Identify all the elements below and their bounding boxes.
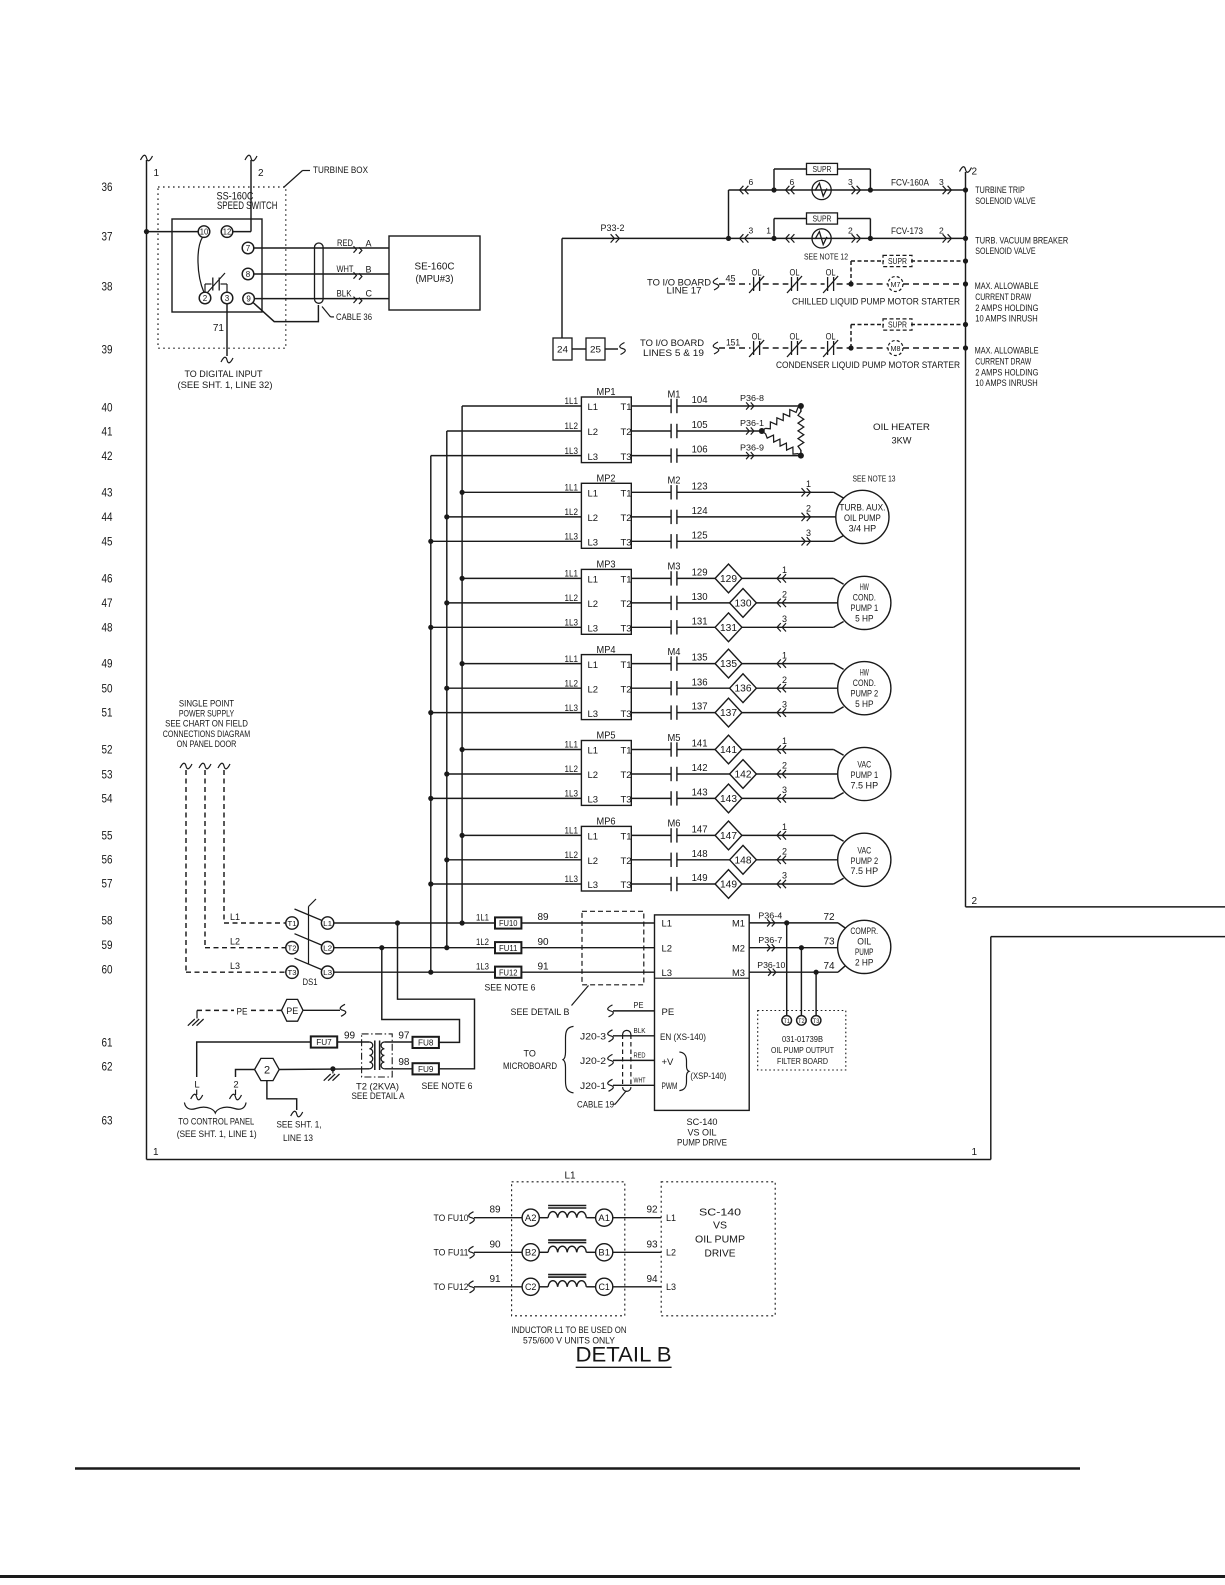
varistor row36 — [812, 180, 831, 199]
svg-text:3: 3 — [806, 528, 811, 538]
svg-text:VAC: VAC — [857, 760, 871, 770]
inductor winding B2-B1 — [539, 1251, 548, 1253]
svg-text:PUMP 1: PUMP 1 — [851, 603, 879, 613]
svg-text:T2: T2 — [621, 599, 632, 610]
suppressor loop row37 — [773, 219, 775, 239]
svg-text:P36-9: P36-9 — [740, 443, 765, 452]
svg-text:43: 43 — [102, 485, 113, 499]
svg-text:VAC: VAC — [857, 846, 871, 856]
svg-text:L2: L2 — [588, 599, 599, 610]
svg-text:MAX. ALLOWABLE: MAX. ALLOWABLE — [975, 346, 1039, 356]
ground symbol PE left — [196, 1010, 198, 1018]
flag diamond 143 — [715, 784, 742, 813]
flag diamond 141 — [715, 735, 742, 764]
svg-text:T2: T2 — [621, 856, 632, 867]
svg-text:129: 129 — [720, 574, 737, 585]
wire FU10 to drive — [521, 922, 654, 924]
svg-text:A2: A2 — [525, 1213, 537, 1223]
svg-text:L1: L1 — [230, 912, 240, 922]
svg-text:J20-2: J20-2 — [580, 1056, 606, 1066]
svg-text:91: 91 — [489, 1274, 501, 1285]
svg-text:1: 1 — [782, 822, 787, 832]
svg-text:CONDENSER LIQUID PUMP MOTOR ST: CONDENSER LIQUID PUMP MOTOR STARTER — [776, 360, 960, 370]
svg-text:OIL PUMP OUTPUT: OIL PUMP OUTPUT — [771, 1045, 834, 1055]
svg-text:1: 1 — [782, 650, 787, 660]
svg-text:L1: L1 — [564, 1171, 576, 1182]
svg-text:MP5: MP5 — [597, 730, 616, 742]
svg-text:TURB. VACUUM BREAKER: TURB. VACUUM BREAKER — [975, 235, 1068, 245]
svg-text:CONNECTIONS DIAGRAM: CONNECTIONS DIAGRAM — [163, 729, 250, 739]
drive box SC-140 — [655, 915, 750, 1111]
svg-text:7.5 HP: 7.5 HP — [851, 866, 879, 876]
svg-text:SUPR: SUPR — [888, 321, 907, 330]
svg-text:45: 45 — [725, 274, 735, 284]
wire 92 to drive L1 — [613, 1217, 661, 1219]
svg-text:48: 48 — [102, 620, 113, 634]
svg-text:TO CONTROL PANEL: TO CONTROL PANEL — [178, 1117, 254, 1127]
svg-text:COND.: COND. — [853, 678, 876, 688]
svg-text:WHT: WHT — [337, 264, 354, 274]
overload contact OL1 M7 — [753, 277, 755, 291]
svg-text:WHT: WHT — [634, 1075, 646, 1084]
svg-text:136: 136 — [692, 676, 708, 688]
break symbol top of line 2 — [245, 155, 257, 161]
svg-text:TO I/O BOARD: TO I/O BOARD — [640, 338, 705, 348]
svg-text:SPEED SWITCH: SPEED SWITCH — [217, 200, 278, 212]
coil M7 motor starter — [888, 277, 903, 292]
terminal L1 DS1 load side — [321, 917, 333, 929]
wires bus to MP3 — [462, 577, 581, 579]
svg-text:L3: L3 — [588, 795, 599, 806]
svg-text:L1: L1 — [662, 919, 673, 930]
svg-text:131: 131 — [692, 615, 708, 627]
svg-text:39: 39 — [102, 342, 113, 356]
svg-text:SUPR: SUPR — [813, 215, 832, 224]
svg-text:M4: M4 — [668, 646, 681, 658]
terminal 2 — [199, 292, 211, 304]
svg-text:89: 89 — [489, 1205, 501, 1216]
flag diamond 137 — [715, 698, 742, 727]
terminal L2 DS1 load side — [321, 942, 333, 954]
svg-text:A: A — [366, 239, 372, 249]
svg-text:PUMP 2: PUMP 2 — [851, 856, 879, 866]
svg-text:3: 3 — [782, 871, 787, 881]
svg-text:BLK: BLK — [634, 1026, 646, 1035]
svg-text:130: 130 — [735, 598, 752, 609]
transformer T2 core — [374, 1041, 376, 1071]
svg-text:46: 46 — [102, 571, 113, 585]
terminal T1 DS1 — [286, 917, 298, 929]
terminal T2 filter board — [797, 1016, 807, 1026]
svg-text:T3: T3 — [621, 880, 632, 891]
motor MP4 — [838, 662, 891, 715]
junction bus M8 — [963, 345, 968, 350]
arrow chevrons 6 row36 left — [740, 186, 744, 194]
motor compressor oil pump — [838, 920, 891, 973]
wire L feed to FU7 — [197, 1042, 311, 1077]
svg-text:SEE NOTE 6: SEE NOTE 6 — [485, 983, 536, 993]
svg-text:L2: L2 — [666, 1248, 676, 1258]
wire L1 to fuse FU10 — [334, 922, 495, 924]
svg-text:72: 72 — [823, 912, 835, 923]
resistor heater element right — [798, 412, 804, 451]
svg-text:L1: L1 — [588, 489, 599, 500]
svg-text:L: L — [194, 1080, 199, 1091]
flag diamond 149 — [715, 870, 742, 899]
wire M3 output 74 — [749, 971, 838, 973]
svg-text:+V: +V — [662, 1057, 675, 1068]
svg-text:CHILLED LIQUID PUMP MOTOR STAR: CHILLED LIQUID PUMP MOTOR STARTER — [792, 297, 960, 307]
wire 131 with flag — [677, 626, 715, 628]
terminal B2 inductor — [522, 1244, 539, 1261]
svg-text:PUMP DRIVE: PUMP DRIVE — [677, 1137, 727, 1148]
svg-text:1: 1 — [782, 565, 787, 575]
brace microboard — [563, 1026, 574, 1093]
wire 123 — [677, 491, 834, 493]
junction bus taps MP3 — [460, 576, 465, 581]
svg-text:56: 56 — [102, 852, 113, 866]
svg-text:T1: T1 — [621, 832, 632, 843]
bus 1L1 vertical feeder — [461, 406, 463, 923]
svg-text:FU9: FU9 — [418, 1064, 434, 1074]
svg-text:MAX. ALLOWABLE: MAX. ALLOWABLE — [975, 281, 1039, 291]
fuse FU12 — [495, 967, 521, 978]
svg-text:2: 2 — [972, 896, 978, 907]
wire FU7 to T2 primary — [337, 1041, 369, 1043]
wire line 37 from rail to terminal 10 — [147, 231, 199, 233]
svg-text:L2: L2 — [323, 944, 332, 953]
drive dotted box detail B — [661, 1182, 775, 1316]
svg-text:2: 2 — [264, 1064, 270, 1076]
svg-text:DS1: DS1 — [303, 977, 318, 987]
svg-text:OIL PUMP: OIL PUMP — [844, 513, 881, 523]
svg-text:125: 125 — [692, 529, 708, 541]
wire 71 from terminal 3 to digital input — [226, 304, 228, 356]
svg-text:OL: OL — [826, 268, 836, 278]
svg-text:M8: M8 — [891, 344, 901, 353]
wire PE hexagon to stub — [303, 1009, 340, 1011]
wire FU12 to drive — [521, 971, 654, 973]
svg-text:55: 55 — [102, 828, 113, 842]
svg-text:M5: M5 — [668, 732, 681, 744]
svg-text:J20-3: J20-3 — [580, 1031, 606, 1041]
overload contact OL2 M7 — [791, 277, 793, 291]
terminal C2 inductor — [522, 1278, 539, 1295]
wire line 2 vertical drop — [250, 160, 252, 232]
wire hexagon2 right to T2 primary bottom — [279, 1068, 369, 1071]
svg-text:97: 97 — [398, 1031, 410, 1042]
break symbol L stub — [191, 1094, 203, 1100]
dashed suppressor riser M8 — [850, 325, 852, 349]
motor turb aux oil pump — [836, 490, 889, 543]
svg-text:L3: L3 — [662, 968, 673, 979]
svg-text:MP3: MP3 — [597, 559, 616, 571]
wire 125 — [677, 540, 834, 542]
wires bus to MP2 — [462, 491, 581, 493]
junction bus row36 — [963, 187, 968, 192]
overload contact OL2 M8 — [791, 341, 793, 355]
svg-text:DETAIL B: DETAIL B — [576, 1343, 672, 1367]
svg-text:2: 2 — [939, 226, 944, 236]
junction supr loop left row36 — [771, 187, 776, 192]
node hexagon 2 — [255, 1058, 280, 1080]
svg-text:143: 143 — [692, 787, 708, 799]
svg-text:SEE DETAIL A: SEE DETAIL A — [352, 1091, 405, 1101]
svg-text:92: 92 — [646, 1205, 658, 1216]
svg-text:2 AMPS HOLDING: 2 AMPS HOLDING — [975, 367, 1038, 377]
suppressor SUPR dashed box M7 — [883, 255, 912, 266]
svg-text:L3: L3 — [588, 452, 599, 463]
motor starter block MP2 — [581, 483, 631, 548]
svg-text:52: 52 — [102, 742, 113, 756]
dashed suppressor riser M7 — [850, 261, 852, 284]
svg-text:49: 49 — [102, 656, 113, 670]
brace to control panel — [184, 1103, 246, 1114]
svg-text:T1: T1 — [783, 1018, 790, 1025]
svg-text:1: 1 — [782, 736, 787, 746]
svg-text:40: 40 — [102, 400, 113, 414]
svg-text:OL: OL — [790, 268, 800, 278]
wire riser to line 24 box — [561, 238, 563, 338]
svg-text:L1: L1 — [666, 1213, 676, 1223]
svg-text:135: 135 — [692, 652, 708, 664]
junction ground tap T2 — [330, 1066, 335, 1071]
wire 129 with flag — [677, 577, 715, 579]
flag diamond 142 — [730, 760, 757, 789]
svg-text:P33-2: P33-2 — [601, 223, 625, 233]
svg-text:PE: PE — [237, 1007, 248, 1017]
svg-text:25: 25 — [590, 345, 601, 356]
svg-text:T2: T2 — [621, 684, 632, 695]
wire hexagon2 bottom to SHT1 LINE13 stub — [267, 1081, 297, 1110]
svg-text:PWM: PWM — [662, 1081, 678, 1092]
svg-text:L3: L3 — [323, 968, 332, 977]
fuse FU10 — [495, 917, 521, 928]
svg-text:L2: L2 — [588, 427, 599, 438]
svg-text:T2 (2KVA): T2 (2KVA) — [356, 1081, 399, 1091]
svg-text:CURRENT DRAW: CURRENT DRAW — [975, 357, 1031, 367]
svg-text:98: 98 — [398, 1057, 410, 1068]
svg-text:VS: VS — [713, 1219, 727, 1231]
transformer T2 primary winding — [369, 1042, 372, 1069]
svg-text:T1: T1 — [288, 919, 297, 928]
terminal T2 DS1 — [286, 942, 298, 954]
svg-text:PUMP 1: PUMP 1 — [851, 770, 879, 780]
svg-text:M3: M3 — [668, 561, 681, 573]
svg-text:M6: M6 — [668, 818, 681, 830]
label CABLE 36 with leader — [322, 307, 331, 317]
filter board dotted box — [758, 1011, 846, 1071]
svg-text:L3: L3 — [588, 624, 599, 635]
bus 1L3 vertical feeder — [430, 456, 432, 973]
svg-text:T3: T3 — [621, 624, 632, 635]
svg-text:POWER SUPPLY: POWER SUPPLY — [179, 709, 234, 719]
svg-text:2: 2 — [782, 847, 787, 857]
inductor L1 dotted box — [512, 1182, 625, 1316]
svg-text:TURBINE BOX: TURBINE BOX — [313, 165, 368, 175]
switch blade DS1 L3 — [295, 958, 322, 969]
junction P33-2 riser — [726, 236, 731, 241]
svg-text:A1: A1 — [598, 1213, 610, 1223]
svg-text:91: 91 — [537, 961, 549, 972]
svg-text:TO: TO — [524, 1049, 536, 1059]
svg-text:L3: L3 — [588, 880, 599, 891]
break symbol wire 71 — [221, 357, 233, 363]
svg-text:2 AMPS HOLDING: 2 AMPS HOLDING — [975, 303, 1038, 313]
svg-text:2: 2 — [258, 168, 264, 179]
flag diamond 147 — [715, 821, 742, 850]
inductor winding C2-C1 — [539, 1286, 548, 1288]
svg-text:2: 2 — [233, 1080, 238, 1091]
svg-text:L2: L2 — [588, 770, 599, 781]
svg-text:130: 130 — [692, 591, 708, 603]
svg-text:141: 141 — [720, 745, 737, 756]
svg-text:SOLENOID VALVE: SOLENOID VALVE — [975, 196, 1035, 206]
break symbol top of bus 2 — [960, 167, 972, 173]
svg-text:2 HP: 2 HP — [855, 958, 873, 968]
wire 141 with flag — [677, 749, 715, 751]
svg-text:73: 73 — [823, 937, 835, 948]
svg-text:M2: M2 — [668, 475, 681, 487]
svg-text:SOLENOID VALVE: SOLENOID VALVE — [975, 246, 1035, 256]
svg-text:42: 42 — [102, 449, 113, 463]
speed switch contact symbol — [204, 284, 206, 292]
node PE hexagon — [282, 999, 304, 1021]
svg-text:CABLE 36: CABLE 36 — [336, 312, 372, 322]
junction taps on row 59 — [379, 945, 384, 950]
drive box internal divider — [655, 977, 750, 979]
break symbol line17 stub — [713, 278, 719, 290]
svg-text:L1: L1 — [588, 402, 599, 413]
wire BLK C from 9 to SE-160C — [254, 298, 389, 300]
svg-text:M7: M7 — [891, 280, 901, 289]
svg-text:MP6: MP6 — [597, 816, 616, 828]
frame top border lower-right — [991, 936, 1225, 938]
wire 106 M1 to heater — [677, 455, 801, 457]
svg-text:HW: HW — [860, 667, 870, 677]
svg-text:FCV-160A: FCV-160A — [891, 178, 929, 188]
svg-text:2: 2 — [782, 590, 787, 600]
overload contact OL3 M7 — [827, 277, 829, 291]
svg-text:T2: T2 — [621, 770, 632, 781]
wire power rail 1 (left vertical, line 1) — [146, 160, 148, 1160]
svg-text:47: 47 — [102, 596, 113, 610]
svg-text:129: 129 — [692, 567, 708, 579]
wire riser junction to line 36 row — [728, 190, 730, 238]
label CABLE 19 with leader — [613, 1091, 627, 1105]
svg-text:63: 63 — [102, 1113, 113, 1127]
terminal 7 — [242, 242, 254, 254]
arrow chevrons 6 row36 mid — [786, 186, 790, 194]
svg-text:M2: M2 — [732, 943, 745, 954]
wire T2 secondary bottom to FU9 — [384, 1068, 412, 1070]
svg-text:P36-8: P36-8 — [740, 394, 765, 403]
svg-text:SEE NOTE 13: SEE NOTE 13 — [853, 474, 896, 483]
svg-text:MICROBOARD: MICROBOARD — [503, 1061, 557, 1071]
varistor row37 — [812, 229, 831, 248]
svg-text:3: 3 — [782, 699, 787, 709]
arrows to pump MP5 — [777, 745, 781, 753]
junction M8 supr tap — [848, 345, 853, 350]
terminal 8 — [242, 268, 254, 280]
svg-text:3KW: 3KW — [892, 436, 912, 447]
svg-text:(MPU#3): (MPU#3) — [416, 273, 454, 285]
wires bus to MP1 — [462, 405, 581, 407]
svg-text:B2: B2 — [525, 1248, 537, 1258]
wires bus to MP6 — [462, 834, 581, 836]
svg-text:6: 6 — [790, 177, 795, 187]
dashed feeder L1 drop — [223, 770, 225, 923]
svg-text:1: 1 — [806, 479, 811, 489]
svg-text:T2: T2 — [288, 944, 297, 953]
overload contact OL3 M8 — [827, 341, 829, 355]
svg-text:1L2: 1L2 — [476, 937, 489, 947]
svg-text:61: 61 — [102, 1035, 113, 1049]
svg-text:FU11: FU11 — [499, 943, 518, 953]
svg-text:TURBINE TRIP: TURBINE TRIP — [975, 185, 1025, 195]
flag diamond 136 — [730, 674, 757, 703]
svg-text:MP2: MP2 — [597, 473, 616, 485]
svg-text:105: 105 — [692, 419, 708, 431]
wire 135 with flag — [677, 663, 715, 665]
resistor heater element bottom — [762, 431, 766, 434]
svg-text:SINGLE POINT: SINGLE POINT — [179, 699, 235, 709]
svg-text:3: 3 — [749, 226, 754, 236]
svg-text:L2: L2 — [662, 943, 673, 954]
svg-text:FU10: FU10 — [499, 918, 518, 928]
terminal 12 — [221, 226, 233, 238]
terminal box 24 — [553, 338, 572, 360]
svg-text:M1: M1 — [668, 388, 681, 400]
zone border top-right horizontal — [966, 906, 1225, 908]
svg-text:B: B — [366, 265, 372, 275]
svg-text:LINE 13: LINE 13 — [283, 1133, 313, 1143]
svg-text:141: 141 — [692, 738, 708, 750]
svg-text:3: 3 — [782, 785, 787, 795]
terminal T3 DS1 — [286, 966, 298, 978]
svg-text:93: 93 — [646, 1239, 658, 1250]
junction bus row37 — [963, 236, 968, 241]
arrow chevrons 2 row37 — [852, 234, 856, 242]
terminal A2 inductor — [522, 1209, 539, 1226]
suppressor SUPR box row36 — [807, 163, 838, 174]
dashed control wire M8 row — [719, 347, 751, 349]
svg-text:5 HP: 5 HP — [855, 699, 873, 709]
svg-text:54: 54 — [102, 791, 113, 805]
svg-text:T1: T1 — [621, 746, 632, 757]
break symbol top of rail 1 — [141, 155, 153, 161]
svg-text:L1: L1 — [323, 919, 332, 928]
fuse FU8 — [413, 1037, 439, 1048]
svg-text:2: 2 — [782, 675, 787, 685]
wire 94 to drive L3 — [613, 1286, 661, 1288]
wire L3 to fuse FU12 — [334, 971, 495, 973]
svg-text:COMPR.: COMPR. — [850, 926, 878, 936]
svg-text:106: 106 — [692, 444, 708, 456]
svg-text:RED: RED — [634, 1050, 646, 1059]
svg-text:3: 3 — [782, 614, 787, 624]
svg-text:5 HP: 5 HP — [855, 614, 873, 624]
svg-text:10 AMPS INRUSH: 10 AMPS INRUSH — [975, 313, 1037, 323]
svg-text:TO FU12: TO FU12 — [434, 1282, 469, 1292]
svg-text:SC-140: SC-140 — [699, 1207, 741, 1219]
dashed feed wire L1 line — [224, 922, 286, 924]
wire 143 with flag — [677, 797, 715, 799]
svg-text:SE-160C: SE-160C — [415, 261, 455, 273]
svg-text:EN (XS-140): EN (XS-140) — [660, 1032, 706, 1042]
svg-text:8: 8 — [246, 270, 251, 279]
svg-text:60: 60 — [102, 962, 113, 976]
